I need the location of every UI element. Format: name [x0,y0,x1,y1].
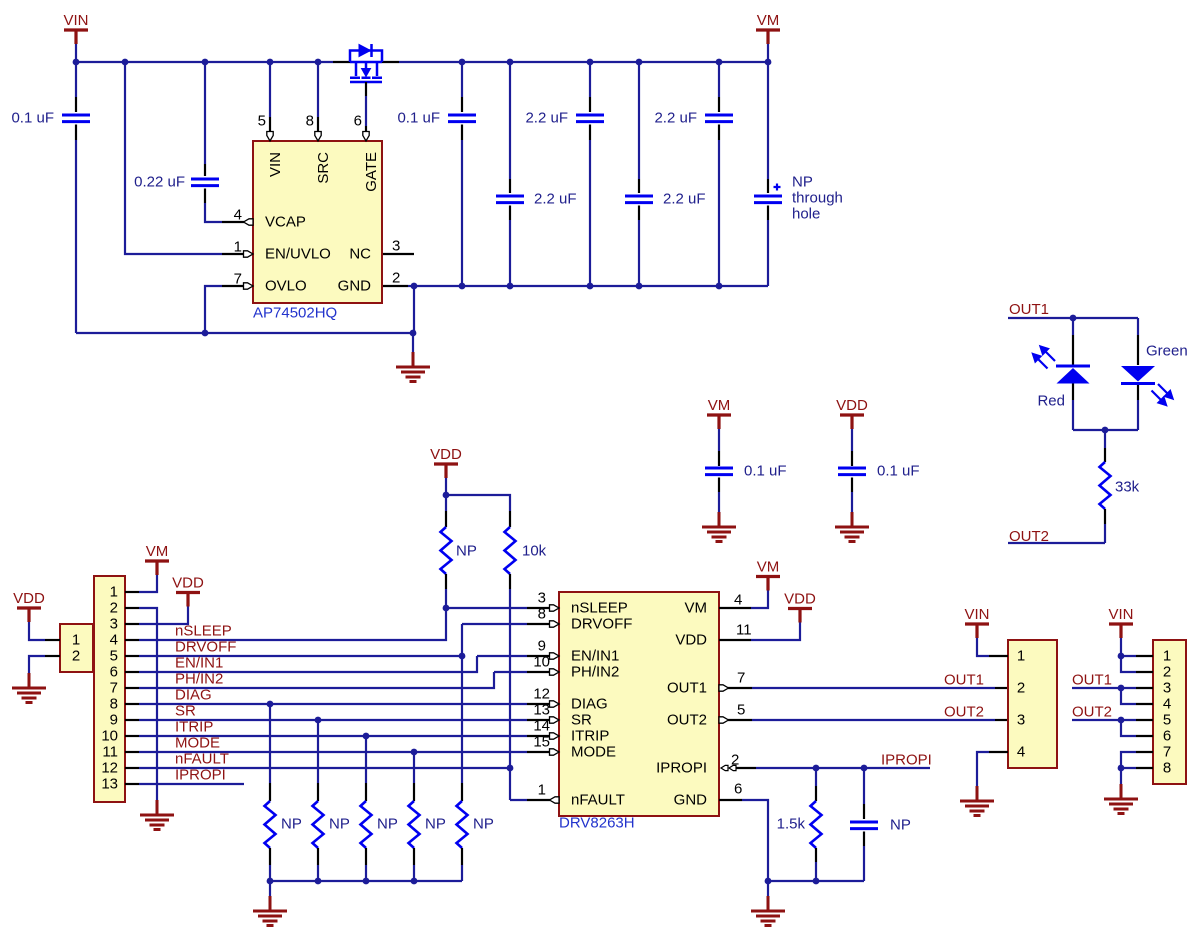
svg-text:NP: NP [377,816,398,833]
resistor R7 NP (MODE) [409,752,446,881]
svg-text:SR: SR [175,703,196,720]
svg-text:10: 10 [101,728,118,745]
wire pull-down ground rail [270,880,462,882]
svg-text:EN/IN1: EN/IN1 [175,655,223,672]
wire GND pin down [719,800,768,881]
svg-text:MODE: MODE [175,735,220,752]
svg-text:1: 1 [72,632,80,649]
svg-text:VCAP: VCAP [265,214,306,231]
svg-text:OUT2: OUT2 [667,712,707,729]
wire J3-1 to VIN [977,638,1008,656]
capacitor C10 0.1 uF (VDD) [838,429,920,512]
svg-text:0.1 uF: 0.1 uF [877,463,920,480]
op-amp U1 AP74502HQ body [253,141,382,303]
svg-text:ITRIP: ITRIP [571,728,609,745]
wire OVLO riser [205,286,244,333]
node ITRIP junction [363,733,370,740]
wire rail to ground [269,881,271,896]
wire J2-1 to VDD [29,622,60,640]
svg-text:3: 3 [1017,712,1025,729]
resistor R8 NP (DRVOFF) [457,656,494,881]
wire J1-2 to ground [139,608,157,800]
connector J2 2-pin body [60,624,93,672]
capacitor C1 0.1 uF (VIN) [11,62,90,333]
transistor Q1 P-MOSFET with body diode [350,44,382,82]
svg-text:OUT2: OUT2 [1072,704,1112,721]
svg-text:5: 5 [110,648,118,665]
svg-text:4: 4 [734,592,742,609]
svg-text:VDD: VDD [675,632,707,649]
power symbol VM (decoupling) [707,397,731,429]
node IPROPI / NP cap [861,765,868,772]
wire VM top rail (right segment) [382,61,768,63]
svg-text:Green: Green [1146,343,1188,360]
svg-text:VDD: VDD [784,591,816,608]
wire ground run (0.1uF bottom to GND pin) [76,332,413,334]
wire pin5 VIN lead [269,62,271,132]
LED D2 Green [1121,318,1173,430]
wire OUT2 to resistor [1008,542,1105,544]
svg-text:VM: VM [685,600,708,617]
svg-text:VIN: VIN [1108,606,1133,623]
power symbol VDD (U2 pin11) [784,591,816,623]
pin arrows U1 top [267,132,369,142]
svg-text:through: through [792,190,843,207]
wire VDD to 10k [446,495,510,511]
svg-text:MODE: MODE [571,744,616,761]
svg-text:nFAULT: nFAULT [571,792,625,809]
svg-text:NP: NP [281,816,302,833]
svg-text:6: 6 [1163,728,1171,745]
wire VIN to J4-1/J4-2 [1121,638,1136,672]
power symbol VIN (J4) [1108,606,1133,638]
node IPROPI / 1.5k [813,765,820,772]
svg-text:6: 6 [354,113,362,130]
ground (J2 pin2) [12,673,46,703]
wire J3-4 to ground [977,752,1008,786]
node nFAULT junction [507,765,514,772]
wire VDD pin to symbol [719,623,800,641]
wire IPROPI stub (J1 side) [139,783,244,785]
wire VM pin to symbol [719,591,768,609]
svg-text:NP: NP [890,817,911,834]
svg-text:VDD: VDD [430,446,462,463]
svg-text:VDD: VDD [172,575,204,592]
capacitor C7 2.2 uF [654,62,733,286]
capacitor C6 2.2 uF (lower row) [625,62,706,286]
svg-text:GND: GND [338,278,372,295]
svg-text:GND: GND [674,792,708,809]
svg-text:VM: VM [757,12,780,29]
svg-text:VM: VM [146,543,169,560]
resistor R2 NP (nSLEEP pull-up) [441,495,477,608]
junction dots on VIN rail [73,59,322,66]
resistor R4 NP (DIAG) [265,704,302,881]
svg-text:2.2 uF: 2.2 uF [654,110,697,127]
svg-text:0.1 uF: 0.1 uF [744,463,787,480]
svg-text:SRC: SRC [315,152,332,184]
power symbol VDD (J2 pin1) [13,590,45,622]
wire SR lead [527,717,559,723]
wire ITRIP [139,735,527,737]
svg-text:2: 2 [110,600,118,617]
junction dots on bottom rail [459,283,723,290]
svg-text:OUT1: OUT1 [1072,672,1112,689]
svg-text:9: 9 [538,638,546,655]
svg-text:7: 7 [110,680,118,697]
svg-text:OUT1: OUT1 [667,680,707,697]
pin leads J4 (black) [1136,656,1153,768]
wire EN/IN1 lead [477,653,559,659]
svg-text:5: 5 [737,702,745,719]
ground (J1 pin2) [140,800,174,830]
svg-text:VIN: VIN [63,12,88,29]
wire PH/IN2 [139,672,494,688]
ground (IPROPI network) [751,896,785,926]
svg-text:DRVOFF: DRVOFF [571,616,632,633]
node rail junctions [267,878,418,885]
svg-text:VM: VM [708,397,731,414]
svg-text:2: 2 [72,648,80,665]
svg-text:VDD: VDD [836,397,868,414]
ground (VDD cap) [835,512,869,542]
svg-text:GATE: GATE [363,152,380,192]
svg-text:PH/IN2: PH/IN2 [571,664,619,681]
svg-text:4: 4 [1017,744,1025,761]
svg-text:4: 4 [234,207,242,224]
resistor R5 NP (SR) [313,720,350,881]
power symbol VDD (pull-ups) [430,446,462,495]
svg-text:2.2 uF: 2.2 uF [534,191,577,208]
ground (VM cap) [702,512,736,542]
wire J2-2 to ground [29,656,60,673]
wire EN/IN1 [139,656,477,672]
svg-text:2.2 uF: 2.2 uF [525,110,568,127]
node junction ground run / GND pin [410,330,417,337]
wire DRVOFF lead [462,621,559,627]
wire DRVOFF [139,624,462,656]
svg-text:DIAG: DIAG [571,696,608,713]
wire nFAULT lead [510,797,559,803]
power symbol VIN (top left) [63,12,88,62]
wire LED bottom junction [1073,429,1138,431]
svg-text:1: 1 [1163,648,1171,665]
wire J1-3 to VDD [139,607,188,625]
node LED bottom junction [1102,427,1109,434]
node 1.5k rail junction [813,878,820,885]
svg-text:4: 4 [1163,696,1171,713]
svg-text:7: 7 [1163,744,1171,761]
node VIN junction (J4) [1118,653,1125,660]
svg-text:VDD: VDD [13,590,45,607]
svg-text:7: 7 [737,670,745,687]
svg-text:7: 7 [234,271,242,288]
svg-text:10: 10 [533,654,550,671]
svg-text:3: 3 [110,616,118,633]
svg-text:NP: NP [329,816,350,833]
svg-text:3: 3 [538,590,546,607]
wire nSLEEP [139,608,446,640]
svg-text:1.5k: 1.5k [777,816,806,833]
svg-text:0.1 uF: 0.1 uF [11,110,54,127]
svg-text:13: 13 [101,776,118,793]
svg-text:1: 1 [538,782,546,799]
wire ITRIP lead [527,733,559,739]
svg-text:Red: Red [1037,393,1065,410]
svg-text:nSLEEP: nSLEEP [175,623,232,640]
wire IPROPI from pin [721,765,930,770]
svg-text:2: 2 [1017,680,1025,697]
svg-text:12: 12 [101,760,118,777]
wire OUT1 to J3 [719,685,1008,691]
node DRVOFF junction [459,653,466,660]
svg-text:4: 4 [110,632,118,649]
wire VM bottom rail [414,285,768,287]
svg-text:1: 1 [1017,648,1025,665]
power symbol VIN (J3) [964,606,989,638]
wire DIAG [139,703,527,705]
resistor R9 1.5k [777,768,822,881]
wire MODE [139,751,527,753]
svg-text:nSLEEP: nSLEEP [571,600,628,617]
node nSLEEP junction [443,605,450,612]
svg-text:DRVOFF: DRVOFF [175,639,236,656]
resistor R3 10k (nFAULT pull-up) [505,511,547,768]
svg-text:IPROPI: IPROPI [175,767,226,784]
pin arrows U1 left [244,219,254,289]
node OUT2 junction (J4) [1118,717,1125,724]
svg-text:1: 1 [110,584,118,601]
svg-text:12: 12 [533,686,550,703]
svg-text:10k: 10k [522,543,547,560]
svg-text:2: 2 [392,270,400,287]
svg-text:OUT1: OUT1 [1009,301,1049,318]
node DIAG junction [267,701,274,708]
wire DIAG lead [527,701,559,707]
op-amp U2 DRV8263H body [559,592,719,816]
wire OUT1 to LEDs [1008,317,1138,319]
svg-text:VIN: VIN [267,152,284,177]
svg-text:8: 8 [1163,760,1171,777]
wire EN/UVLO from VIN rail [125,62,244,254]
svg-text:2: 2 [1163,664,1171,681]
wire NC stub [383,253,414,255]
svg-text:SR: SR [571,712,592,729]
svg-text:0.1 uF: 0.1 uF [397,110,440,127]
power symbol VDD (J1 pin3) [172,575,204,607]
wire OUT2 to J4-5/J4-6 [1072,720,1136,736]
ground (pull-down rail) [253,896,287,926]
capacitor C5 2.2 uF [525,62,604,286]
svg-text:6: 6 [734,781,742,798]
svg-text:DRV8263H: DRV8263H [559,815,635,832]
power symbol VM (J1 pin1) [145,543,169,575]
svg-text:VIN: VIN [964,606,989,623]
svg-text:3: 3 [1163,680,1171,697]
wire PH/IN2 lead [494,669,559,675]
capacitor C4 2.2 uF (lower row) [496,62,577,286]
wire pin8 SRC lead [317,62,319,132]
svg-text:13: 13 [533,702,550,719]
svg-text:9: 9 [110,712,118,729]
node OUT1 junction (J4) [1118,685,1125,692]
node junction OVLO/ground run [202,330,209,337]
wire GND pin down [383,283,417,352]
ground (J4) [1104,784,1138,814]
svg-text:14: 14 [533,718,550,735]
svg-text:DIAG: DIAG [175,687,212,704]
wire VCAP [205,203,244,222]
svg-text:IPROPI: IPROPI [881,752,932,769]
capacitor C9 0.1 uF (VM) [705,429,787,512]
ground (J3) [960,786,994,816]
node GND junction (J4) [1118,765,1125,772]
connector J3 4-pin body [1008,640,1057,768]
svg-text:8: 8 [110,696,118,713]
node GND rail junction [765,878,772,885]
wire MODE lead [527,749,559,755]
svg-text:2.2 uF: 2.2 uF [663,191,706,208]
svg-text:EN/IN1: EN/IN1 [571,648,619,665]
node LED top junction [1070,315,1077,322]
svg-text:1: 1 [234,239,242,256]
power symbol VM (U2 pin4) [756,559,780,591]
wire GATE [365,82,367,132]
wire SR [139,719,527,721]
svg-text:IPROPI: IPROPI [656,760,707,777]
capacitor C2 0.22 uF (VCAP) [134,62,219,203]
svg-text:15: 15 [533,734,550,751]
svg-text:hole: hole [792,206,820,223]
svg-text:nFAULT: nFAULT [175,751,229,768]
svg-text:NC: NC [349,246,371,263]
svg-text:PH/IN2: PH/IN2 [175,671,223,688]
svg-text:OUT1: OUT1 [944,672,984,689]
resistor R1 33k [1100,430,1140,543]
junction dots on VM rail [459,59,772,66]
svg-text:EN/UVLO: EN/UVLO [265,246,331,263]
connector J1 13-pin body [94,576,125,802]
svg-text:OUT2: OUT2 [944,704,984,721]
svg-text:AP74502HQ: AP74502HQ [253,305,337,322]
capacitor C8 NP through hole (electrolytic) [754,62,843,286]
svg-text:11: 11 [736,622,752,639]
node VDD junction [443,492,450,499]
wire IPROPI ground rail [768,880,864,882]
svg-text:VM: VM [757,559,780,576]
wire J1-1 to VM [139,575,157,592]
svg-text:NP: NP [792,174,813,191]
capacitor C3 0.1 uF [397,62,476,286]
wire rail to ground (IPROPI) [767,881,769,896]
wire OUT1 to J4-3/J4-4 [1072,688,1136,704]
svg-text:11: 11 [102,744,118,761]
resistor R6 NP (ITRIP) [361,736,398,881]
svg-text:0.22 uF: 0.22 uF [134,174,185,191]
connector J4 8-pin body [1153,640,1186,784]
svg-text:8: 8 [538,606,546,623]
node MODE junction [411,749,418,756]
node SR junction [315,717,322,724]
pin leads J1 (black) [125,592,139,784]
wire J4-7/J4-8 to ground [1121,752,1136,784]
svg-text:NP: NP [425,816,446,833]
svg-text:NP: NP [473,816,494,833]
LED D1 Red [1033,318,1090,430]
svg-text:8: 8 [306,113,314,130]
wire VIN top rail (left segment) [76,61,350,63]
svg-text:5: 5 [258,113,266,130]
svg-text:33k: 33k [1115,479,1140,496]
power symbol VM (top right) [756,12,780,62]
wire OUT2 to J3 [719,717,1008,723]
wire nFAULT [139,768,510,800]
svg-text:5: 5 [1163,712,1171,729]
capacitor C11 NP (IPROPI) [850,768,911,881]
svg-text:NP: NP [456,543,477,560]
svg-text:6: 6 [110,664,118,681]
wire nSLEEP lead [446,605,559,611]
ground (below AP74502HQ) [396,352,430,382]
svg-text:OVLO: OVLO [265,278,307,295]
svg-text:ITRIP: ITRIP [175,719,213,736]
svg-text:3: 3 [392,238,400,255]
power symbol VDD (decoupling) [836,397,868,429]
